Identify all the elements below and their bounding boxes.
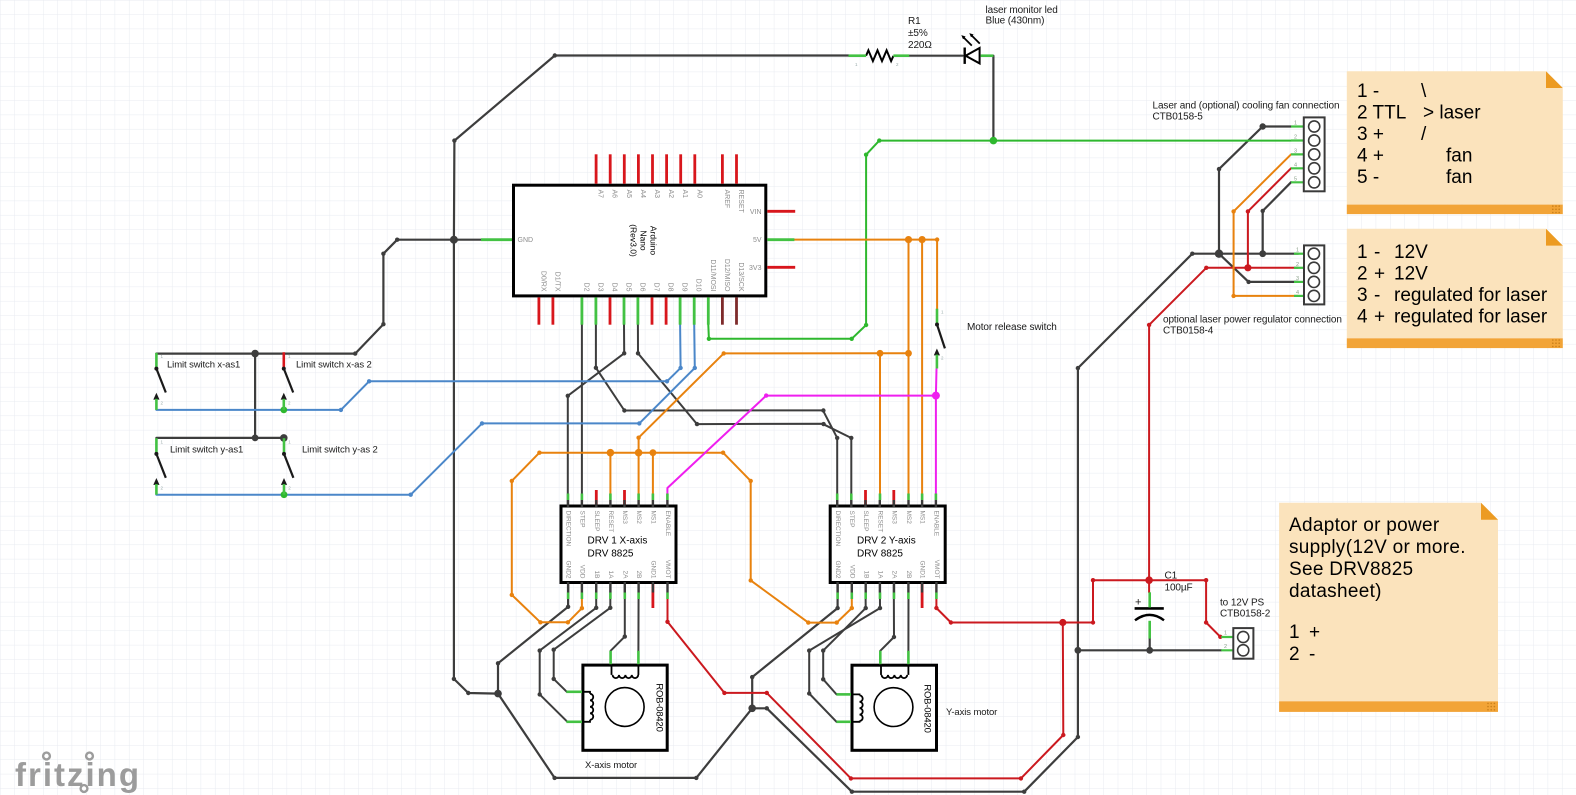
svg-text:D13/SCK: D13/SCK	[737, 262, 744, 292]
capacitor C1 100uF	[1135, 571, 1193, 639]
Arduino pin VIN stub	[767, 210, 795, 213]
node CTB dark junction	[1215, 250, 1223, 258]
node orange bus MS1 junction	[650, 449, 657, 456]
svg-text:ENABLE: ENABLE	[933, 511, 940, 537]
Arduino bottom unconnected stubs D0 D1 D4 D7 D8	[538, 297, 541, 324]
svg-text:DIRECTION: DIRECTION	[834, 511, 841, 547]
svg-text:MS3: MS3	[621, 511, 628, 525]
note 3 adaptor note	[1279, 503, 1498, 712]
orange 5V net	[512, 240, 937, 623]
svg-text:STEP: STEP	[579, 511, 586, 528]
svg-text:5V: 5V	[753, 237, 762, 244]
svg-text:C1: C1	[1165, 571, 1178, 582]
svg-text:1: 1	[1296, 248, 1299, 254]
svg-text:VIN: VIN	[750, 209, 762, 216]
orange 4th pin wire CTB4	[1234, 154, 1298, 296]
wire D6 to DRV2 DIRECTION	[638, 325, 851, 504]
node green LED junction	[990, 137, 998, 145]
svg-text:Motor release switch: Motor release switch	[967, 322, 1057, 333]
Arduino pin labels	[518, 190, 762, 293]
svg-text:RESET: RESET	[607, 511, 614, 533]
wire DRV1 2B to X motor coil	[637, 585, 639, 652]
svg-text:2B: 2B	[905, 571, 912, 579]
Arduino pin 3V3 stub	[767, 266, 795, 269]
wire DRV2 2B to Y motor coil	[907, 585, 909, 652]
svg-text:D0/RX: D0/RX	[539, 271, 546, 292]
Y motor green pin stubs	[837, 651, 909, 722]
wire LED down to green junction	[992, 56, 994, 141]
wire CTB5 pin1 to junction	[1219, 127, 1291, 254]
wire CTB5 pin3 to CTB4 pin4	[1234, 154, 1298, 296]
Arduino top pins A7-A0 AREF RESET (unconnected red stubs)	[539, 154, 795, 324]
svg-text:1: 1	[1224, 631, 1227, 637]
svg-text:SLEEP: SLEEP	[593, 511, 600, 532]
svg-text:3: 3	[1296, 276, 1299, 282]
svg-text:D11/MOSI: D11/MOSI	[709, 259, 716, 291]
wire Arduino 5V to motor release switch	[794, 240, 937, 309]
svg-text:VDD: VDD	[579, 565, 586, 579]
GND net (dark)	[156, 56, 1298, 792]
svg-text:DRV 8825: DRV 8825	[857, 549, 903, 560]
wire D3 to DRV2 STEP	[596, 325, 837, 504]
svg-text:A7: A7	[597, 190, 604, 199]
X-axis stepper motor M1	[566, 651, 667, 751]
svg-text:VMOT: VMOT	[933, 560, 940, 579]
node magenta junction	[932, 392, 940, 400]
wire junction to C1 ground bus	[1078, 254, 1219, 651]
svg-text:fritzing: fritzing	[15, 756, 141, 793]
svg-text:ENABLE: ENABLE	[664, 511, 671, 537]
limit switch S1 x-as1	[153, 353, 240, 410]
svg-text:GND2: GND2	[565, 560, 572, 578]
wire DRV2 2A to Y motor coil	[880, 585, 894, 652]
node gnd motors junction 2	[748, 705, 756, 713]
limit switch S3 y-as1	[153, 438, 243, 495]
svg-text:D7: D7	[653, 283, 660, 292]
wire DRV1 orange bus to DRV2 VDD	[539, 453, 851, 623]
wire limit switch y-as1 to junction	[156, 437, 255, 439]
wire bend dots	[339, 53, 1265, 794]
svg-text:D1/TX: D1/TX	[553, 272, 560, 292]
wire orange mid horizontal	[724, 352, 909, 354]
wire mid horizontal down to DRV1 bus	[639, 353, 724, 504]
node blue x switch tap	[280, 407, 287, 414]
svg-text:Adaptor or power: Adaptor or power	[1289, 515, 1440, 536]
node orange mid RESET2 junction	[877, 350, 884, 357]
svg-text:A3: A3	[653, 190, 660, 199]
svg-text:DRV 2 Y-axis: DRV 2 Y-axis	[857, 536, 916, 547]
connector J1 CTB0158-5	[1153, 101, 1340, 192]
svg-text:3V3: 3V3	[749, 265, 762, 272]
svg-text:2: 2	[1224, 644, 1227, 650]
svg-text:Y-axis motor: Y-axis motor	[946, 707, 997, 718]
svg-text:CTB0158-5: CTB0158-5	[1153, 112, 1204, 123]
wire junction to bottom-left bus	[498, 694, 752, 778]
step/dir signal wires (dark)	[540, 325, 909, 722]
wire bus down and around bottom right	[752, 650, 1078, 791]
svg-text:VMOT: VMOT	[664, 560, 671, 579]
Arduino pins D12 D13 maroon stubs	[722, 297, 736, 324]
svg-text:A2: A2	[667, 190, 674, 199]
node GND-Arduino junction	[450, 236, 458, 244]
svg-text:3: 3	[1294, 148, 1297, 154]
node C1 gnd bus mid	[1146, 647, 1153, 654]
Y-axis stepper motor M2	[837, 651, 937, 751]
svg-text:A0: A0	[695, 190, 702, 199]
Arduino connected green stubs	[481, 240, 794, 325]
svg-text:D2: D2	[582, 283, 589, 292]
node 5V MS1 junction	[919, 236, 926, 243]
wire limit switch x junction down to y switches	[255, 354, 284, 438]
wire ground junction to limit switches	[156, 240, 454, 354]
X motor top coil	[612, 665, 639, 678]
wire ground junction to Arduino GND	[454, 239, 481, 241]
node C1 gnd bus left	[1075, 647, 1082, 654]
DRV2 pin legs	[837, 500, 936, 593]
svg-text:STEP: STEP	[848, 511, 855, 528]
svg-text:DRV 1 X-axis: DRV 1 X-axis	[588, 536, 648, 547]
DRV2 green pin ticks	[837, 494, 936, 600]
svg-text:GND1: GND1	[919, 560, 926, 578]
svg-text:A6: A6	[611, 190, 618, 199]
node limit switch y junction 1	[252, 435, 259, 442]
svg-text:+: +	[1135, 597, 1141, 609]
svg-text:Limit switch y-as 2: Limit switch y-as 2	[302, 445, 378, 456]
svg-text:Laser and (optional) cooling f: Laser and (optional) cooling fan connect…	[1153, 101, 1340, 112]
LED D1 laser monitor led	[961, 5, 1057, 64]
limit switch S2 x-as 2	[281, 352, 372, 410]
svg-text:laser monitor led: laser monitor led	[986, 5, 1058, 16]
Arduino Nano U1	[481, 154, 795, 324]
svg-text:2: 2	[1296, 262, 1299, 268]
svg-text:Limit switch y-as1: Limit switch y-as1	[170, 445, 243, 456]
svg-text:D10: D10	[695, 279, 702, 292]
green laser TTL net	[708, 141, 1291, 339]
note 1 laser fan pinout	[1347, 71, 1563, 214]
svg-text:100µF: 100µF	[1165, 583, 1193, 594]
svg-text:SLEEP: SLEEP	[862, 511, 869, 532]
wire D5 to DRV1 DIRECTION	[568, 325, 624, 504]
svg-text:5: 5	[1294, 176, 1297, 182]
DRV2 pin labels	[834, 511, 940, 580]
wire bus to DRV1 RESET	[609, 453, 611, 504]
magenta enable net	[667, 369, 936, 504]
svg-text:DIRECTION: DIRECTION	[565, 511, 572, 547]
svg-text:datasheet): datasheet)	[1289, 581, 1382, 602]
svg-text:2A: 2A	[891, 571, 898, 580]
node red C1 junction	[1145, 576, 1153, 584]
DRV2 SLEEP MS3 red stubs	[866, 490, 923, 608]
svg-text:2A: 2A	[621, 571, 628, 580]
svg-text:4: 4	[1294, 162, 1297, 168]
svg-text:GND1: GND1	[650, 560, 657, 578]
connector J2 CTB0158-4	[1163, 245, 1342, 336]
svg-text:ROB-08420: ROB-08420	[654, 683, 665, 731]
DRV8825 driver U2 (DRV 1 X-axis)	[561, 490, 676, 608]
wire C1 bottom lead to bus	[1149, 639, 1151, 651]
note grip dots	[1487, 205, 1560, 710]
wire junction down to C1	[1149, 268, 1248, 593]
svg-text:VDD: VDD	[848, 565, 855, 579]
wire ground bus to CTB2 pin2	[1078, 649, 1221, 651]
node orange bus RESET1 junction	[607, 449, 615, 457]
svg-text:X-axis motor: X-axis motor	[585, 760, 637, 771]
svg-text:±5%: ±5%	[908, 28, 928, 39]
Y motor left coil	[852, 694, 863, 721]
wire junction to CTB4 pin2	[1248, 267, 1298, 269]
wire DRV1 2A to X motor coil	[611, 585, 625, 652]
wire DRV1 1A to X motor coil	[554, 585, 611, 692]
svg-text:A5: A5	[625, 190, 632, 199]
svg-text:MS2: MS2	[635, 511, 642, 525]
node 5V MS2 junction	[905, 236, 912, 243]
svg-text:GND: GND	[518, 237, 534, 244]
wire CTB5 pin5 drop	[1263, 182, 1291, 253]
svg-text:220Ω: 220Ω	[908, 40, 932, 51]
svg-text:D9: D9	[681, 283, 688, 292]
blue limit switch wires	[156, 325, 694, 495]
svg-text:Blue (430nm): Blue (430nm)	[986, 16, 1045, 27]
node gnd motors junction 1	[494, 690, 502, 698]
svg-text:R1: R1	[908, 16, 921, 27]
DRV1 GND1 red stub	[652, 584, 655, 608]
svg-text:1A: 1A	[877, 571, 884, 580]
svg-text:MS1: MS1	[650, 511, 657, 525]
wire junction to CTB4 pin1	[1219, 253, 1298, 255]
svg-text:DRV 8825: DRV 8825	[588, 549, 634, 560]
note 2 regulator pinout	[1347, 229, 1563, 348]
resistor R1	[849, 16, 933, 61]
tiny pin number marks	[161, 62, 945, 491]
wire DRV2 1A to Y motor coil	[809, 585, 880, 722]
node red 12V junction	[1059, 619, 1066, 626]
svg-text:A4: A4	[639, 190, 646, 199]
svg-text:Limit switch x-as1: Limit switch x-as1	[167, 360, 240, 371]
DRV1 pin labels	[565, 511, 672, 580]
wire CTB5 pin4 down	[1248, 168, 1291, 267]
wire junction to DRV2 ENABLE	[935, 396, 937, 504]
fritzing watermark	[15, 753, 141, 793]
wire D10 to y limit switches	[156, 325, 694, 495]
node orange bus MS2 junction	[635, 449, 643, 457]
DRV1 green pin ticks top	[568, 494, 668, 600]
svg-text:1: 1	[1294, 121, 1297, 127]
wire 5V to DRV2 MS2	[908, 240, 910, 504]
node limit switch x junction	[251, 350, 259, 358]
node red CTB4 junction	[1244, 264, 1251, 271]
wire junction up to DRV2 GND2	[752, 585, 837, 708]
motor release switch S5	[934, 309, 1057, 369]
svg-text:2B: 2B	[635, 571, 642, 579]
wire junction to CTB4 pin3	[1219, 254, 1298, 282]
svg-text:RESET: RESET	[737, 190, 744, 214]
wire 5V to DRV2 MS1	[921, 240, 923, 504]
DRV1 SLEEP MS3 red stubs	[596, 490, 653, 608]
svg-text:GND2: GND2	[834, 560, 841, 578]
wire D9 to x limit switches	[156, 325, 680, 410]
wire junction up to DRV1 GND2	[498, 585, 568, 694]
node limit switch y junction 2	[280, 434, 288, 442]
svg-text:CTB0158-4: CTB0158-4	[1163, 326, 1214, 337]
svg-text:2: 2	[1294, 135, 1297, 141]
svg-text:MS3: MS3	[890, 511, 897, 525]
svg-text:D4: D4	[611, 283, 618, 292]
svg-text:ROB-08420: ROB-08420	[922, 684, 933, 732]
svg-text:D8: D8	[667, 283, 674, 292]
svg-text:D5: D5	[625, 283, 632, 292]
svg-text:CTB0158-2: CTB0158-2	[1220, 609, 1271, 620]
svg-text:See DRV8825: See DRV8825	[1289, 559, 1413, 580]
svg-text:supply(12V or more.: supply(12V or more.	[1289, 537, 1466, 558]
wire main ground vertical	[454, 56, 849, 694]
wire 12V to DRV2 VMOT	[936, 585, 1062, 623]
svg-text:to 12V PS: to 12V PS	[1220, 598, 1265, 609]
svg-text:4: 4	[1296, 290, 1299, 296]
wire R1 to LED	[909, 55, 962, 57]
Y motor top coil	[881, 665, 908, 678]
DRV8825 driver U3 (DRV 2 Y-axis)	[830, 490, 945, 608]
svg-text:MS2: MS2	[905, 511, 912, 525]
wire DRV2 1B to Y motor coil	[823, 585, 866, 694]
svg-text:optional laser power regulator: optional laser power regulator connectio…	[1163, 315, 1342, 326]
X motor rotor circle	[605, 688, 644, 727]
node blue y switch tap	[281, 491, 288, 498]
DRV1 pin legs	[568, 500, 668, 593]
DRV2 GND1 red stub	[921, 584, 924, 608]
X motor green pin stubs	[566, 651, 638, 722]
svg-text:AREF: AREF	[723, 190, 730, 209]
red 12V net	[668, 168, 1299, 778]
node pin5 join	[1259, 250, 1266, 257]
wire D2 to DRV1 STEP	[581, 325, 583, 504]
svg-text:1A: 1A	[607, 571, 614, 580]
svg-text:A1: A1	[681, 190, 688, 199]
wire bus loop to DRV1 VDD	[512, 453, 582, 623]
wire DRV1 ENABLE to junction	[667, 396, 936, 504]
connector J3 CTB0158-2	[1220, 598, 1271, 659]
wire D11 to LED junction and CTB5 pin2	[708, 141, 1291, 339]
wire C1 junction to CTB2 pin1	[1149, 580, 1220, 637]
limit switch S4 y-as 2	[281, 438, 378, 495]
svg-text:D6: D6	[638, 283, 645, 292]
svg-text:D3: D3	[596, 283, 603, 292]
Y motor rotor circle	[874, 688, 913, 727]
svg-text:Limit switch x-as 2: Limit switch x-as 2	[296, 360, 372, 371]
wire junction up to motor release switch	[935, 369, 938, 396]
svg-text:1B: 1B	[593, 571, 600, 579]
svg-text:RESET: RESET	[877, 511, 884, 533]
svg-text:1B: 1B	[862, 571, 869, 579]
svg-text:D12/MISO: D12/MISO	[723, 259, 730, 292]
wire 12V bottom loop to DRV1 VMOT	[668, 585, 1064, 778]
node pin1 corner	[1260, 123, 1266, 129]
node orange mid MS2 junction	[905, 350, 912, 357]
wire to DRV2 RESET	[879, 353, 881, 504]
X motor left coil	[583, 692, 593, 722]
wire bus to DRV1 MS1	[652, 453, 654, 504]
wire C1 junction left	[1063, 580, 1149, 622]
svg-text:MS1: MS1	[919, 511, 926, 525]
wire DRV1 1B to X motor coil	[540, 585, 597, 722]
